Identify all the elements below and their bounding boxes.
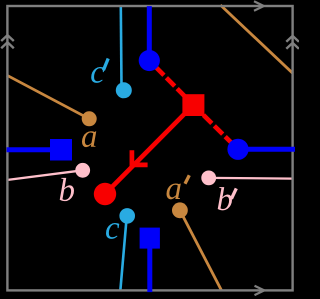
left edge double arrow [1,35,14,48]
wire: cyan segment to point c' [120,6,123,86]
label c' letter [91,67,104,83]
label a [82,131,96,147]
label b' letter [218,187,232,210]
point c [119,208,135,224]
label c [106,223,119,239]
red square vertex [182,94,204,116]
wire: blue stem to left square [7,147,61,152]
label b [60,178,74,201]
point a' [172,202,188,218]
wire: blue stem to right circle [238,147,295,152]
wire: brown segment to point a [7,75,89,119]
label a' letter [166,183,180,199]
label c' prime [103,59,108,71]
blue square left [50,139,72,161]
red endpoint dot [94,183,116,205]
point b' [201,171,216,186]
blue square bottom [140,228,160,249]
red dashed separatrix upper [149,61,193,106]
right edge double arrow [286,36,299,49]
blue circle right [227,139,248,160]
wire: pink segment to point b [7,170,83,180]
red dashed separatrix lower [193,105,238,149]
red solid trajectory [105,105,193,194]
label a' prime [185,175,189,184]
top edge arrow [254,1,264,10]
point b [75,163,90,178]
point c' [116,82,132,98]
red mid-arrowhead [132,150,148,165]
wire: blue stem to top circle [147,6,152,60]
bottom edge arrow [255,286,265,295]
blue circle top [139,50,160,71]
label b' prime [231,188,236,198]
wire: brown segment from point a' [180,210,222,290]
wire: brown segment crossing top-right corner [220,5,292,73]
wire: cyan segment from point c [120,218,126,291]
wire: blue stem to bottom square [147,238,152,292]
wire: pink segment from point b' [209,177,293,180]
point a [82,111,97,126]
